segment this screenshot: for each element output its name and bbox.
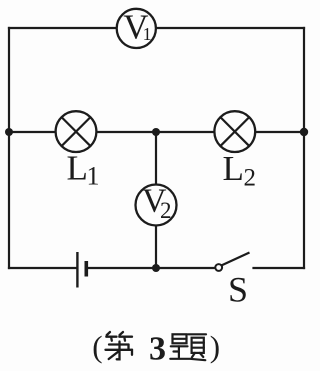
wire V2 branch upper from node B to voltmeter V2 <box>155 132 157 185</box>
battery cell (long positive plate) <box>76 252 78 288</box>
svg-text:S: S <box>228 270 248 310</box>
wire bottom-left from left rail to battery <box>9 267 77 269</box>
wire top-left from left rail to voltmeter V1 <box>9 27 117 29</box>
lamp L2 <box>214 111 255 152</box>
svg-text:L: L <box>223 149 244 188</box>
voltmeter V1 <box>117 7 156 48</box>
wire bottom-right from switch S to right rail <box>254 267 305 269</box>
svg-text:1: 1 <box>87 162 100 191</box>
svg-text:3: 3 <box>149 330 166 366</box>
battery cell (short negative plate) <box>85 261 89 277</box>
node B (middle wire / V2 branch junction) <box>152 128 160 136</box>
wire V2 branch lower from voltmeter V2 to node D <box>155 226 157 269</box>
node D (bottom wire / V2 branch junction) <box>152 264 160 272</box>
lamp L1 <box>56 111 97 152</box>
wire middle-right from lamp L2 to right rail <box>256 131 305 133</box>
wire middle-left from left rail to lamp L1 <box>9 131 56 133</box>
wire middle-center from lamp L1 to lamp L2 <box>97 131 215 133</box>
wire bottom-center from battery to node D and switch S <box>87 267 216 269</box>
wire right rail <box>303 28 305 268</box>
caption character 第 (drawn strokes) <box>106 332 133 359</box>
svg-text:2: 2 <box>244 165 257 192</box>
svg-text:1: 1 <box>143 24 152 44</box>
svg-text:2: 2 <box>160 198 172 223</box>
switch S lever arm <box>222 253 250 266</box>
voltmeter V2 <box>136 183 177 226</box>
wire left rail <box>8 28 10 268</box>
svg-text:): ) <box>210 329 220 364</box>
label L2 <box>223 149 257 192</box>
svg-text:(: ( <box>92 329 102 364</box>
wire top-right from voltmeter V1 to right rail <box>156 27 304 29</box>
node C (right rail / middle wire junction) <box>300 128 308 136</box>
node A (left rail / middle wire junction) <box>5 128 13 136</box>
switch S pivot circle <box>215 264 222 271</box>
svg-text:L: L <box>67 149 88 188</box>
label L1 <box>67 149 100 191</box>
caption character 题 (drawn strokes) <box>170 334 206 360</box>
